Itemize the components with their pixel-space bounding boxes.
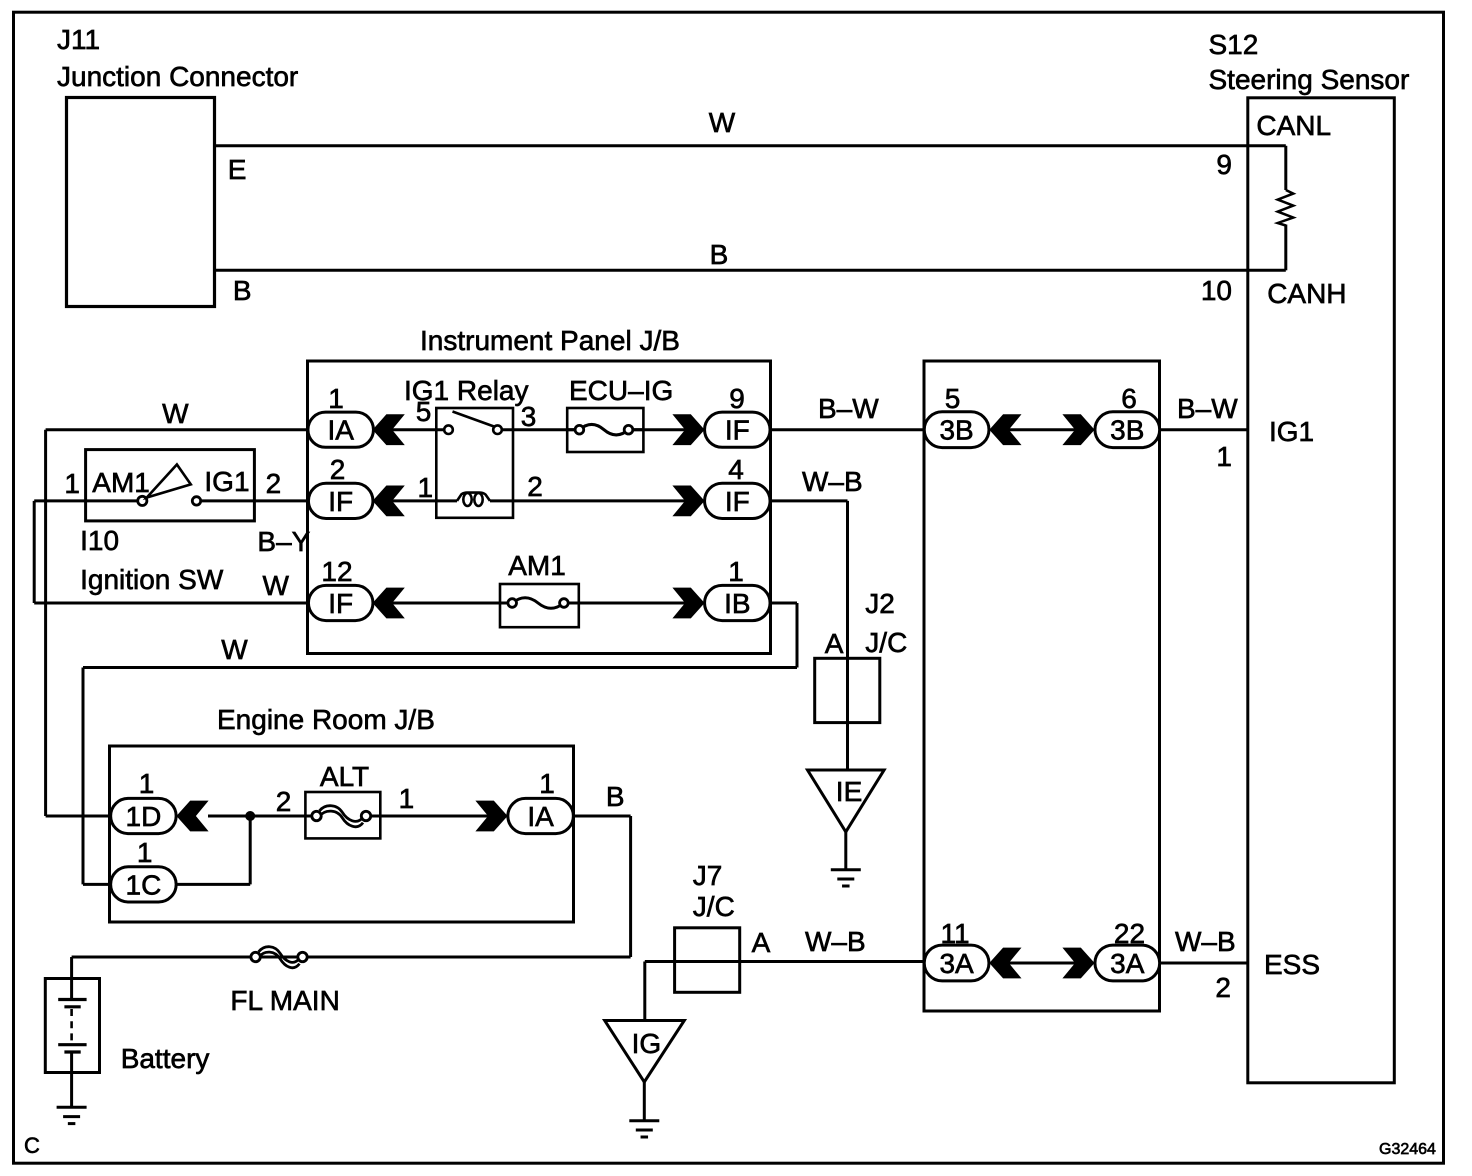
svg-text:W: W xyxy=(162,398,189,429)
svg-text:1: 1 xyxy=(64,468,80,499)
svg-text:IF: IF xyxy=(725,486,750,517)
svg-text:ECU–IG: ECU–IG xyxy=(569,375,673,406)
svg-text:IG1: IG1 xyxy=(1269,416,1314,447)
svg-text:2: 2 xyxy=(266,468,282,499)
svg-text:10: 10 xyxy=(1201,275,1232,306)
svg-text:CANH: CANH xyxy=(1267,278,1346,309)
svg-text:IA: IA xyxy=(327,415,354,446)
svg-text:1: 1 xyxy=(728,556,744,587)
svg-text:IG: IG xyxy=(632,1028,662,1059)
svg-text:3B: 3B xyxy=(939,415,973,446)
svg-text:AM1: AM1 xyxy=(508,550,566,581)
svg-text:5: 5 xyxy=(945,383,961,414)
svg-text:1D: 1D xyxy=(126,801,162,832)
svg-text:B–W: B–W xyxy=(1177,393,1238,424)
svg-text:Steering Sensor: Steering Sensor xyxy=(1209,64,1410,95)
svg-text:J11: J11 xyxy=(57,24,100,55)
svg-text:I10: I10 xyxy=(80,525,119,556)
svg-text:Ignition SW: Ignition SW xyxy=(80,564,224,595)
svg-text:AM1: AM1 xyxy=(92,467,150,498)
svg-text:9: 9 xyxy=(729,383,745,414)
svg-text:W: W xyxy=(263,570,290,601)
svg-text:S12: S12 xyxy=(1209,29,1259,60)
svg-text:B: B xyxy=(233,275,252,306)
svg-text:3A: 3A xyxy=(1110,948,1145,979)
svg-text:4: 4 xyxy=(728,454,744,485)
svg-text:1C: 1C xyxy=(126,869,162,900)
svg-text:1: 1 xyxy=(137,837,153,868)
svg-text:2: 2 xyxy=(276,786,292,817)
svg-text:1: 1 xyxy=(418,472,434,503)
svg-text:11: 11 xyxy=(940,918,969,949)
svg-text:W: W xyxy=(709,107,736,138)
svg-text:3A: 3A xyxy=(939,948,974,979)
svg-text:2: 2 xyxy=(527,471,543,502)
svg-text:W: W xyxy=(221,634,248,665)
svg-text:FL MAIN: FL MAIN xyxy=(230,985,339,1016)
svg-text:1: 1 xyxy=(1216,441,1232,472)
svg-text:Engine Room J/B: Engine Room J/B xyxy=(217,704,435,735)
svg-text:Junction Connector: Junction Connector xyxy=(57,61,298,92)
svg-text:W–B: W–B xyxy=(1175,926,1236,957)
svg-text:G32464: G32464 xyxy=(1379,1141,1436,1158)
svg-text:IE: IE xyxy=(836,776,862,807)
svg-text:1: 1 xyxy=(139,768,155,799)
svg-text:12: 12 xyxy=(321,556,352,587)
svg-text:E: E xyxy=(228,154,247,185)
svg-text:2: 2 xyxy=(1215,972,1231,1003)
svg-text:3: 3 xyxy=(521,401,537,432)
svg-text:9: 9 xyxy=(1216,149,1232,180)
svg-text:CANL: CANL xyxy=(1256,110,1331,141)
svg-text:1: 1 xyxy=(328,383,344,414)
svg-text:B: B xyxy=(710,239,729,270)
svg-text:Instrument Panel J/B: Instrument Panel J/B xyxy=(420,325,680,356)
svg-text:3B: 3B xyxy=(1110,415,1144,446)
svg-text:J/C: J/C xyxy=(693,891,735,922)
svg-text:IB: IB xyxy=(724,588,750,619)
svg-text:1: 1 xyxy=(399,783,415,814)
svg-text:A: A xyxy=(752,927,771,958)
svg-text:IG1: IG1 xyxy=(204,466,249,497)
svg-text:1: 1 xyxy=(539,768,555,799)
svg-text:6: 6 xyxy=(1121,383,1137,414)
svg-text:IF: IF xyxy=(328,486,353,517)
svg-text:C: C xyxy=(24,1133,40,1158)
svg-text:A: A xyxy=(825,628,844,659)
svg-text:IF: IF xyxy=(328,588,353,619)
svg-text:IA: IA xyxy=(527,801,554,832)
svg-text:B–W: B–W xyxy=(818,393,879,424)
svg-text:B–Y: B–Y xyxy=(257,526,310,557)
svg-text:B: B xyxy=(606,781,625,812)
svg-text:W–B: W–B xyxy=(802,466,863,497)
svg-text:J2: J2 xyxy=(865,588,895,619)
svg-text:ESS: ESS xyxy=(1264,949,1320,980)
svg-text:22: 22 xyxy=(1114,918,1145,949)
svg-text:5: 5 xyxy=(416,396,432,427)
svg-text:W–B: W–B xyxy=(805,926,866,957)
svg-text:J/C: J/C xyxy=(865,627,907,658)
svg-text:IF: IF xyxy=(725,415,750,446)
svg-text:2: 2 xyxy=(330,454,346,485)
svg-text:ALT: ALT xyxy=(320,761,369,792)
svg-text:Battery: Battery xyxy=(121,1043,210,1074)
svg-text:J7: J7 xyxy=(693,860,723,891)
